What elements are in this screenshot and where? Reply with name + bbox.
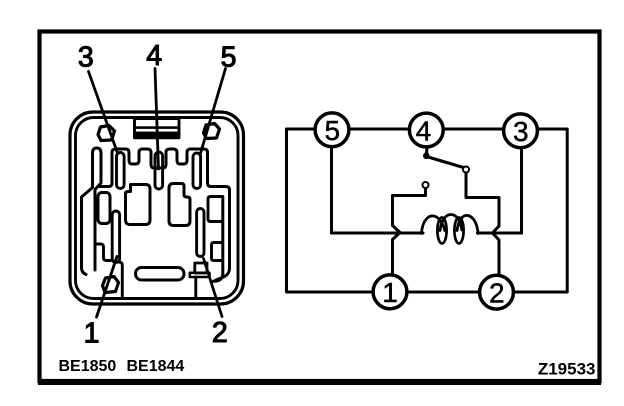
svg-text:3: 3 <box>78 42 94 74</box>
svg-text:3: 3 <box>513 116 529 147</box>
svg-text:BE1844: BE1844 <box>127 358 185 375</box>
svg-text:BE1850: BE1850 <box>59 358 117 375</box>
svg-text:5: 5 <box>325 115 341 146</box>
svg-text:1: 1 <box>84 318 100 350</box>
svg-text:4: 4 <box>416 116 432 147</box>
svg-text:4: 4 <box>146 40 162 72</box>
svg-text:1: 1 <box>382 277 398 308</box>
svg-text:2: 2 <box>212 317 228 349</box>
svg-text:5: 5 <box>221 42 237 74</box>
svg-text:2: 2 <box>489 277 505 308</box>
svg-text:Z19533: Z19533 <box>538 360 596 379</box>
